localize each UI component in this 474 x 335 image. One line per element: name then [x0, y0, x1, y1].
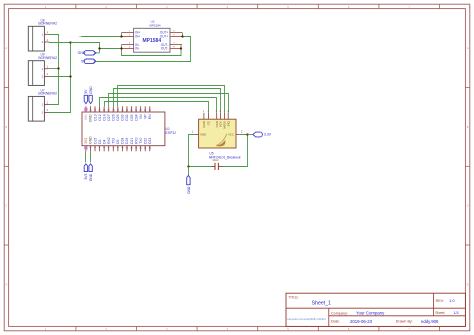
- junction NRF vcc: [246, 133, 248, 135]
- junction NRF gnd: [187, 165, 189, 167]
- wire IN- jumper and ground loop: [122, 45, 182, 56]
- svg-text:D21: D21: [130, 138, 134, 144]
- junction U8.2: [69, 41, 71, 43]
- svg-text:BORNERA2: BORNERA2: [38, 22, 57, 26]
- net flag 5V: [81, 59, 96, 64]
- svg-text:3V3: 3V3: [84, 138, 88, 144]
- svg-text:D34: D34: [134, 114, 138, 120]
- svg-text:D19: D19: [125, 138, 129, 144]
- svg-text:IN-: IN-: [135, 47, 139, 51]
- no-connect mark VIN: [84, 108, 87, 111]
- svg-text:2019-06-23: 2019-06-23: [350, 319, 373, 324]
- svg-text:BORNERA2: BORNERA2: [38, 92, 57, 96]
- svg-text:IN+: IN+: [135, 34, 140, 38]
- svg-text:OUT-: OUT-: [161, 47, 169, 51]
- microcontroller U1 ESP32: [82, 106, 176, 151]
- junction U9.1: [57, 67, 59, 69]
- regulator module U2 MP1584: [122, 20, 183, 53]
- title block: [286, 293, 465, 326]
- svg-text:Company:: Company:: [331, 311, 348, 315]
- svg-text:MP1584: MP1584: [142, 38, 161, 44]
- svg-text:D5: D5: [116, 139, 120, 143]
- wire IN+ pin jumper: [121, 33, 123, 37]
- wire gnd flag drop: [188, 167, 190, 176]
- svg-text:Your Company: Your Company: [356, 311, 385, 316]
- wire ESP32 D14 to NRF pin: [105, 102, 209, 113]
- svg-text:D26: D26: [112, 114, 116, 120]
- svg-text:D13: D13: [93, 114, 97, 120]
- svg-text:D12: D12: [98, 114, 102, 120]
- wire ESP32 GND down: [90, 151, 92, 162]
- svg-text:MP1584: MP1584: [149, 23, 161, 27]
- radio module U5 NRF24L01_Breakout: [192, 111, 243, 159]
- svg-text:easyeda.com/eddy908-nrf2401: easyeda.com/eddy908-nrf2401: [287, 317, 326, 321]
- svg-text:D4: D4: [102, 139, 106, 143]
- svg-text:D32: D32: [125, 114, 129, 120]
- svg-text:eddy.908: eddy.908: [421, 319, 439, 324]
- svg-text:Date:: Date:: [331, 320, 340, 324]
- svg-text:BORNERA2: BORNERA2: [38, 56, 57, 60]
- svg-text:10uF: 10uF: [212, 158, 219, 162]
- wire IN+ feed: [79, 36, 122, 38]
- wire U8.1-U9.1-U7.1 vertical bus: [49, 35, 59, 105]
- svg-text:REV:: REV:: [436, 299, 444, 303]
- svg-text:1.0: 1.0: [449, 298, 455, 303]
- net flag 3.3V: [248, 132, 272, 137]
- svg-text:D18: D18: [121, 138, 125, 144]
- wire ESP32 D12 to NRF pin: [100, 98, 217, 113]
- net flag 5V at ESP32 VIN: [84, 89, 88, 104]
- svg-text:D33: D33: [121, 114, 125, 120]
- svg-text:RX0: RX0: [134, 137, 138, 144]
- no-connect mark 3V3: [84, 146, 87, 149]
- svg-text:EN: EN: [148, 114, 152, 119]
- connector U8 BORNERA2: [28, 18, 57, 51]
- svg-text:TITLE:: TITLE:: [288, 295, 298, 299]
- junction OUT-: [180, 47, 182, 49]
- wire ESP32 3V3 down: [85, 151, 87, 162]
- wire OUT+ jumper: [182, 33, 184, 37]
- svg-text:D35: D35: [130, 114, 134, 120]
- svg-text:1/1: 1/1: [453, 310, 459, 315]
- svg-text:5V: 5V: [84, 89, 88, 94]
- svg-text:CE: CE: [207, 121, 211, 125]
- wire ESP32 VN to NRF pin: [109, 94, 229, 113]
- svg-text:IRQ: IRQ: [226, 120, 230, 126]
- wire cap to VCC: [221, 135, 248, 167]
- svg-text:GND: GND: [89, 86, 93, 94]
- svg-text:TX0: TX0: [139, 138, 143, 144]
- net flag GND: [78, 51, 96, 56]
- wire ESP32 VP to NRF pin: [114, 89, 221, 113]
- svg-text:GND: GND: [200, 133, 206, 137]
- junction IN-: [120, 47, 122, 49]
- svg-text:VCC: VCC: [228, 133, 234, 137]
- wire GND net to MP1584 IN-: [71, 43, 122, 53]
- svg-text:TX2: TX2: [112, 138, 116, 144]
- svg-text:D22: D22: [143, 138, 147, 144]
- junction IN+: [120, 35, 122, 37]
- svg-text:RX2: RX2: [107, 137, 111, 144]
- svg-text:Drawn By:: Drawn By:: [396, 320, 413, 324]
- svg-text:GND: GND: [89, 173, 93, 181]
- net flag GND bottom: [89, 164, 93, 181]
- svg-text:GND: GND: [202, 121, 206, 127]
- junction OUT+: [181, 35, 183, 37]
- svg-text:VN: VN: [139, 114, 143, 119]
- wire U8.2-U9.2-U7.2 vertical bus: [49, 43, 71, 113]
- svg-text:D27: D27: [107, 114, 111, 120]
- svg-text:D14: D14: [102, 114, 106, 120]
- wire NRF GND to cap: [189, 135, 213, 167]
- svg-text:ESP32: ESP32: [166, 131, 177, 135]
- wire ESP32 EN to NRF pin: [118, 86, 225, 113]
- capacitor C1 10uF: [212, 158, 222, 170]
- wire 5V to MP1584 OUT+: [96, 37, 190, 62]
- svg-text:D23: D23: [148, 138, 152, 144]
- svg-text:3V3: 3V3: [84, 173, 88, 179]
- svg-text:VP: VP: [143, 114, 147, 119]
- connector U7 BORNERA2: [28, 88, 57, 121]
- svg-text:GND: GND: [89, 136, 93, 144]
- net flag GND under NRF: [187, 176, 191, 194]
- svg-text:3.3V: 3.3V: [264, 133, 272, 137]
- junction GND tap: [98, 47, 100, 49]
- svg-text:D15: D15: [93, 138, 97, 144]
- svg-text:Sheet:: Sheet:: [435, 311, 445, 315]
- svg-text:D25: D25: [116, 114, 120, 120]
- svg-text:VIN: VIN: [84, 114, 88, 120]
- svg-text:GND: GND: [89, 114, 93, 122]
- svg-text:GND: GND: [187, 186, 191, 194]
- svg-text:D2: D2: [98, 139, 102, 143]
- junction U9.2: [69, 75, 71, 77]
- net flag GND at ESP32 GND: [89, 86, 93, 104]
- svg-text:Sheet_1: Sheet_1: [312, 300, 331, 306]
- net flag 3V3 bottom: [84, 164, 88, 180]
- connector U9 BORNERA2: [28, 53, 57, 86]
